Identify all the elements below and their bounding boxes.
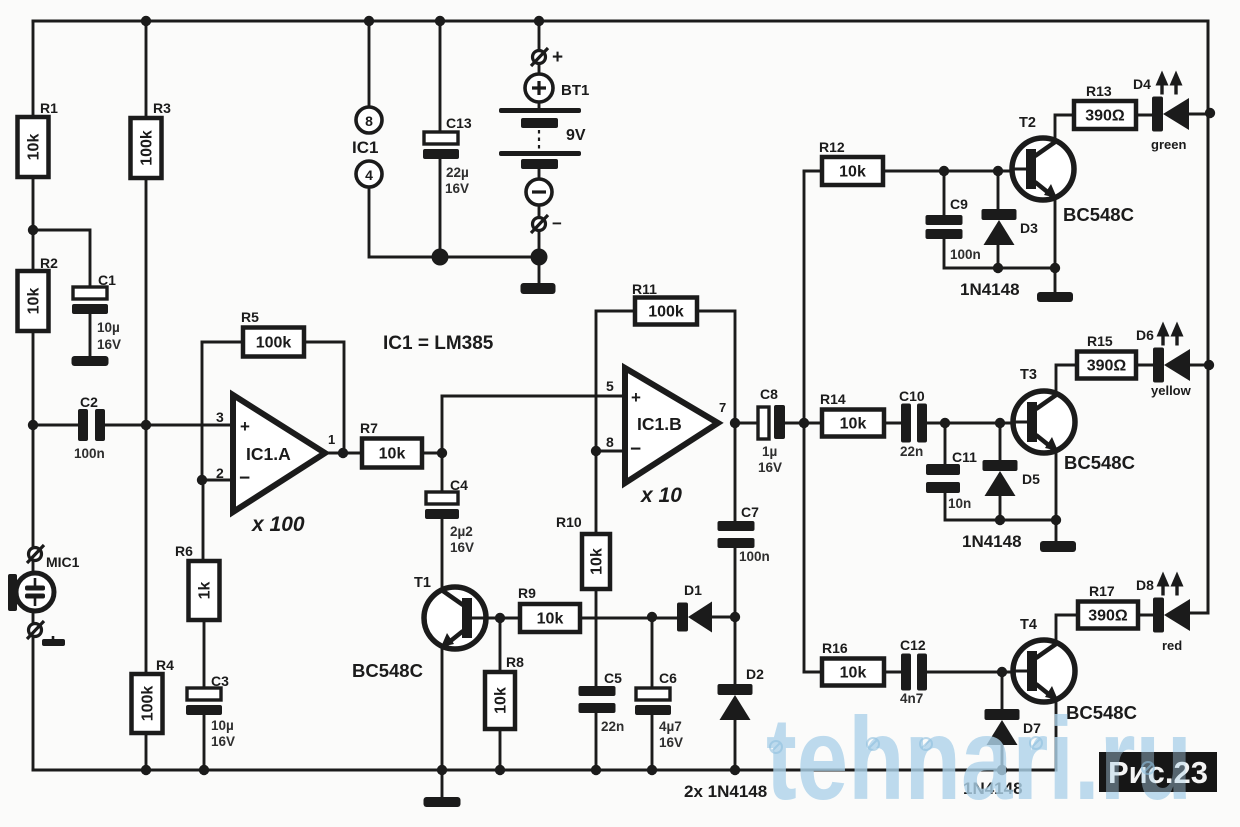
resistor R16 — [822, 640, 884, 686]
svg-text:3: 3 — [216, 409, 224, 425]
svg-text:5: 5 — [606, 378, 614, 394]
node T2 emitter / ground — [1050, 263, 1060, 273]
svg-text:10µ: 10µ — [97, 320, 120, 335]
svg-text:7: 7 — [719, 400, 726, 415]
svg-text:IC1.A: IC1.A — [246, 444, 291, 464]
svg-text:10k: 10k — [493, 687, 510, 714]
svg-text:4µ7: 4µ7 — [659, 719, 682, 734]
node detector bus / C8 — [799, 418, 809, 428]
resistor R12 — [819, 139, 883, 185]
microphone MIC1 connector bottom — [27, 621, 44, 639]
wire pin 8 stub — [596, 450, 625, 453]
wire pin 2 stub — [202, 479, 233, 482]
diode D7 (1N4148) — [985, 709, 1042, 745]
svg-text:10n: 10n — [948, 496, 971, 511]
resistor R3 — [131, 100, 172, 178]
svg-text:D4: D4 — [1133, 76, 1151, 92]
node R7 out / C4 — [437, 448, 447, 458]
svg-text:−: − — [630, 439, 641, 460]
svg-text:10k: 10k — [379, 446, 406, 463]
resistor R1 — [18, 100, 59, 177]
svg-text:red: red — [1162, 638, 1182, 653]
svg-text:C4: C4 — [450, 477, 468, 493]
svg-text:R13: R13 — [1086, 83, 1112, 99]
svg-text:16V: 16V — [450, 540, 474, 555]
wire to IC1.B pin 5 — [442, 395, 625, 398]
svg-text:8: 8 — [365, 113, 373, 129]
svg-text:10k: 10k — [26, 288, 43, 315]
capacitor C1 — [72, 272, 121, 352]
svg-text:1k: 1k — [197, 582, 214, 600]
battery BT1 connector + — [531, 47, 563, 68]
microphone MIC1 connector top — [27, 545, 44, 563]
svg-text:390Ω: 390Ω — [1085, 108, 1125, 125]
svg-text:4: 4 — [365, 167, 373, 183]
svg-text:R15: R15 — [1087, 333, 1113, 349]
svg-text:R11: R11 — [632, 281, 657, 297]
capacitor C4 — [425, 477, 474, 555]
node top rail / IC1 pin8 — [364, 16, 374, 26]
svg-text:100k: 100k — [648, 304, 684, 321]
svg-text:22n: 22n — [900, 444, 923, 459]
node C3 / ground rail — [199, 765, 209, 775]
svg-text:100n: 100n — [950, 247, 981, 262]
ground T3 emitter — [1040, 541, 1076, 552]
node bias divider / pin3 — [141, 420, 151, 430]
svg-text:8: 8 — [606, 434, 614, 450]
svg-text:T1: T1 — [414, 575, 431, 591]
svg-text:16V: 16V — [211, 734, 235, 749]
wire R11 feedback loop — [596, 311, 735, 451]
battery BT1 cells 9V — [499, 108, 586, 169]
svg-text:2x 1N4148: 2x 1N4148 — [684, 782, 767, 801]
node C13 negative rail (big) — [432, 249, 449, 266]
node R8 / ground rail — [495, 765, 505, 775]
diode D1 (1N4148) — [677, 582, 712, 633]
node R2-MIC1 / C2 — [28, 420, 38, 430]
diode D2 (1N4148) — [718, 666, 765, 720]
node C5 / ground rail — [591, 765, 601, 775]
resistor R4 — [132, 657, 175, 733]
LED D4 (green) — [1133, 71, 1189, 153]
resistor R2 — [18, 255, 59, 331]
svg-text:1µ: 1µ — [762, 444, 777, 459]
node R4 / ground rail — [141, 765, 151, 775]
node pin8 / R10 / R11 — [591, 446, 601, 456]
svg-text:22µ: 22µ — [446, 165, 469, 180]
wire IC1 power pins 8/4 to negative rail — [369, 21, 539, 257]
svg-text:R8: R8 — [506, 654, 524, 670]
resistor R6 — [175, 543, 220, 620]
ground below C1 — [72, 356, 109, 366]
svg-text:10k: 10k — [840, 665, 867, 682]
capacitor C12 — [900, 637, 927, 706]
node D5 / T3 base — [995, 418, 1005, 428]
svg-text:9V: 9V — [566, 127, 586, 144]
svg-text:16V: 16V — [659, 735, 683, 750]
wire T3 collector R15 LED D6 row — [1056, 365, 1208, 393]
node BT1 / negative rail — [534, 252, 544, 262]
svg-text:IC1 = LM385: IC1 = LM385 — [383, 333, 494, 354]
svg-text:BC548C: BC548C — [352, 660, 423, 681]
wire T4 collector R17 LED D8 row — [1056, 613, 1208, 642]
svg-text:C9: C9 — [950, 196, 968, 212]
svg-text:R5: R5 — [241, 309, 259, 325]
svg-text:IC1: IC1 — [352, 138, 378, 157]
wire left column R1/R2/MIC1 — [32, 21, 35, 770]
svg-text:C3: C3 — [211, 673, 229, 689]
node BT1 negative rail (big) — [531, 249, 548, 266]
svg-text:1N4148: 1N4148 — [962, 532, 1022, 551]
svg-text:10k: 10k — [840, 416, 867, 433]
op-amp IC1.A — [216, 395, 335, 536]
resistor R13 — [1074, 83, 1136, 129]
wire T1 base through R9 to D1 — [468, 617, 677, 620]
transistor T3 (BC548C NPN) — [1011, 367, 1075, 453]
wire R5 feedback loop — [202, 342, 344, 453]
node D7 / ground rail — [997, 765, 1007, 775]
svg-text:T4: T4 — [1020, 617, 1037, 633]
svg-text:R14: R14 — [820, 391, 846, 407]
wire C1 branch — [33, 230, 90, 356]
battery BT1 plus terminal — [525, 74, 589, 102]
wire T4 emitter — [1055, 701, 1058, 770]
microphone MIC1 — [8, 573, 54, 611]
svg-text:R10: R10 — [556, 514, 582, 530]
wire bottom ground rail — [33, 769, 1056, 772]
svg-text:R9: R9 — [518, 585, 536, 601]
svg-text:10k: 10k — [537, 611, 564, 628]
svg-text:R3: R3 — [153, 100, 171, 116]
svg-text:C13: C13 — [446, 115, 472, 131]
wire R14 C10 to T3 base — [804, 422, 1028, 425]
svg-text:R16: R16 — [822, 640, 848, 656]
wire top +9V supply rail — [33, 20, 1208, 23]
capacitor C6 — [635, 670, 683, 750]
capacitor C8 (1µ 16V) — [758, 386, 785, 475]
svg-text:+: + — [552, 47, 563, 68]
node D4 / +rail — [1205, 108, 1215, 118]
wire BT1 column — [538, 21, 541, 283]
node C12 / D7 / T4 base — [997, 667, 1007, 677]
wire ground stub main — [441, 770, 444, 797]
LED D6 (yellow) — [1136, 322, 1192, 399]
wire detector node vertical bus — [803, 172, 806, 672]
svg-text:390Ω: 390Ω — [1087, 358, 1127, 375]
wire D5 column — [999, 423, 1002, 520]
wire D3 column — [997, 171, 1000, 268]
node T1 base / R8 / R9 — [495, 613, 505, 623]
wire C6 column — [651, 617, 654, 770]
resistor R8 — [485, 654, 524, 729]
svg-text:22n: 22n — [601, 719, 624, 734]
node D6 / +rail — [1204, 360, 1214, 370]
resistor R7 — [360, 420, 422, 468]
svg-text:R2: R2 — [40, 255, 58, 271]
svg-text:R1: R1 — [40, 100, 58, 116]
svg-text:100n: 100n — [739, 549, 770, 564]
svg-text:R7: R7 — [360, 420, 378, 436]
ground at MIC1 — [42, 636, 65, 646]
svg-text:−: − — [239, 468, 250, 489]
battery BT1 minus terminal — [526, 179, 552, 205]
node D1 / C7 / D2 — [730, 612, 740, 622]
svg-text:C7: C7 — [741, 504, 759, 520]
svg-text:x 10: x 10 — [640, 484, 682, 507]
wire C13 column — [439, 21, 442, 257]
svg-text:1N4148: 1N4148 — [960, 280, 1020, 299]
wire T2 ground stub — [1054, 268, 1057, 292]
node top rail / BT1 — [534, 16, 544, 26]
svg-text:100k: 100k — [139, 130, 156, 166]
svg-text:C11: C11 — [952, 449, 977, 465]
svg-text:BC548C: BC548C — [1064, 452, 1135, 473]
svg-text:D5: D5 — [1022, 471, 1040, 487]
wire op-amp A output through R7 — [325, 452, 442, 455]
node R1-R2 / C1 — [28, 225, 38, 235]
svg-text:10k: 10k — [589, 548, 606, 575]
battery BT1 connector - — [531, 214, 562, 233]
wire R10 / C5 column — [595, 451, 598, 770]
node T3 emitter / ground — [1051, 515, 1061, 525]
ground T2 emitter — [1037, 292, 1073, 302]
wire T3 emitter — [1055, 453, 1058, 520]
resistor R9 — [518, 585, 580, 632]
capacitor C9 — [926, 196, 981, 262]
capacitor C13 — [423, 115, 472, 196]
svg-text:R17: R17 — [1089, 583, 1115, 599]
wire C2 input to pin 3 — [33, 424, 233, 427]
svg-text:100k: 100k — [256, 335, 292, 352]
node C13 / negative rail — [435, 252, 445, 262]
IC1 power pin 8 — [356, 107, 382, 133]
wire op-amp B output through C8 — [735, 422, 804, 425]
wire R8 column — [499, 618, 502, 770]
node pin2 / R5 / R6 — [197, 475, 207, 485]
svg-text:MIC1: MIC1 — [46, 554, 80, 570]
capacitor C10 — [899, 388, 927, 459]
node top rail / C13 — [435, 16, 445, 26]
svg-text:C6: C6 — [659, 670, 677, 686]
svg-text:10k: 10k — [839, 164, 866, 181]
svg-text:C10: C10 — [899, 388, 925, 404]
node C9-D3 emitter rail — [993, 263, 1003, 273]
svg-text:D3: D3 — [1020, 220, 1038, 236]
transistor T2 (BC548C NPN) — [1010, 115, 1074, 200]
svg-text:C1: C1 — [98, 272, 116, 288]
ground below bottom rail — [424, 797, 461, 807]
capacitor C7 — [718, 504, 770, 564]
svg-text:C5: C5 — [604, 670, 622, 686]
wire R3/R4 column — [145, 21, 148, 770]
LED D8 (red) — [1136, 572, 1190, 654]
node T1 emitter / ground rail — [437, 765, 447, 775]
svg-text:10µ: 10µ — [211, 718, 234, 733]
node op-amp B out — [730, 418, 740, 428]
figure label Рис.23 — [766, 693, 1217, 824]
IC1 power pin 4 — [356, 161, 382, 187]
wire C4 / T1 collector-emitter column — [441, 396, 444, 770]
capacitor C5 — [579, 670, 625, 734]
svg-text:+: + — [631, 388, 641, 407]
wire R16 C12 to T4 base — [804, 671, 1028, 674]
svg-text:2µ2: 2µ2 — [450, 524, 473, 539]
resistor R5 — [241, 309, 304, 357]
svg-text:D6: D6 — [1136, 327, 1154, 343]
wire T2 emitter — [1054, 199, 1057, 268]
ground below BT1 — [521, 283, 556, 294]
wire T2 collector R13 LED D4 row — [1055, 114, 1208, 140]
resistor R11 — [632, 281, 697, 325]
svg-text:green: green — [1151, 137, 1186, 152]
capacitor C11 — [926, 449, 977, 511]
svg-text:R4: R4 — [156, 657, 174, 673]
resistor R15 — [1077, 333, 1136, 379]
diode D5 (1N4148) — [983, 460, 1041, 496]
node C6 / ground rail — [647, 765, 657, 775]
svg-text:BT1: BT1 — [561, 82, 589, 99]
resistor R10 — [556, 514, 610, 589]
svg-text:−: − — [552, 214, 562, 233]
watermark decorative marks — [770, 737, 1154, 774]
svg-text:D1: D1 — [684, 582, 702, 598]
svg-text:C12: C12 — [900, 637, 926, 653]
wire C9 column and T2 emitter rail — [944, 171, 1055, 268]
svg-text:390Ω: 390Ω — [1088, 608, 1128, 625]
node R12 / C9 — [939, 166, 949, 176]
svg-text:D2: D2 — [746, 666, 764, 682]
diode D3 (1N4148) — [982, 209, 1039, 245]
wire T3 ground stub — [1055, 520, 1058, 541]
svg-text:C8: C8 — [760, 386, 778, 402]
svg-text:+: + — [240, 417, 250, 436]
node D5 emitter rail — [995, 515, 1005, 525]
transistor T1 (BC548C NPN) — [414, 575, 488, 649]
wire D1 to C7/D2 node — [711, 616, 735, 619]
node C10 / C11 — [940, 418, 950, 428]
node R9-D1 / C6 — [647, 612, 657, 622]
svg-text:R12: R12 — [819, 139, 845, 155]
svg-text:2: 2 — [216, 465, 224, 481]
node op-amp A out — [338, 448, 348, 458]
capacitor C3 — [186, 673, 235, 749]
svg-text:100k: 100k — [140, 686, 157, 722]
capacitor C2 — [74, 394, 105, 461]
svg-text:T3: T3 — [1020, 367, 1037, 383]
wire R12 to T2 base — [804, 170, 1028, 173]
svg-text:IC1.B: IC1.B — [637, 414, 682, 434]
svg-text:D8: D8 — [1136, 577, 1154, 593]
wire R5 feedback / R6 / C3 column — [202, 342, 204, 770]
wire D7 column — [1001, 672, 1004, 770]
svg-text:BC548C: BC548C — [1063, 204, 1134, 225]
svg-text:100n: 100n — [74, 446, 105, 461]
svg-text:T2: T2 — [1019, 115, 1036, 131]
transistor T4 (BC548C NPN) — [1011, 617, 1075, 702]
svg-text:R6: R6 — [175, 543, 193, 559]
wire right supply rail down to LEDs — [1207, 21, 1210, 613]
svg-text:16V: 16V — [758, 460, 782, 475]
op-amp IC1.B — [606, 368, 726, 507]
svg-text:x 100: x 100 — [251, 513, 305, 536]
wire C11 column and T3 emitter rail — [945, 423, 1056, 520]
wire C7 / D2 column — [734, 423, 737, 770]
node D2 / ground rail — [730, 765, 740, 775]
svg-text:C2: C2 — [80, 394, 98, 410]
svg-text:16V: 16V — [445, 181, 469, 196]
svg-text:16V: 16V — [97, 337, 121, 352]
svg-text:yellow: yellow — [1151, 383, 1192, 398]
node top rail / R3 — [141, 16, 151, 26]
node R12 / D3 / T2 base — [993, 166, 1003, 176]
resistor R14 — [820, 391, 884, 437]
svg-text:1: 1 — [328, 432, 335, 447]
svg-text:10k: 10k — [26, 134, 43, 161]
resistor R17 — [1078, 583, 1138, 629]
